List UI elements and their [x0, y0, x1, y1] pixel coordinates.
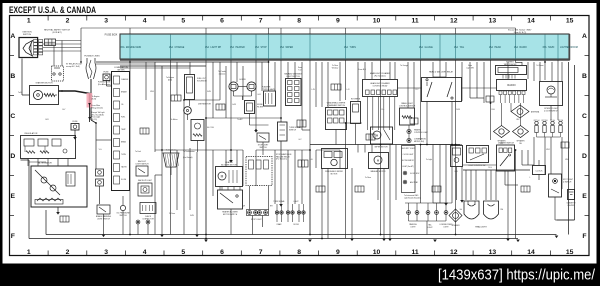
antenna speaker front [511, 105, 529, 118]
svg-text:GAUGE: GAUGE [425, 46, 434, 49]
svg-text:WIPER MOTOR: WIPER MOTOR [374, 147, 388, 149]
svg-text:INT WIPER: INT WIPER [351, 99, 361, 101]
svg-text:(B,B): (B,B) [168, 79, 172, 81]
svg-text:12: 12 [450, 18, 458, 25]
brake warning light switch [97, 205, 110, 214]
svg-text:15: 15 [566, 18, 574, 25]
svg-text:15A: 15A [419, 46, 424, 49]
svg-text:RR RH: RR RH [558, 120, 564, 122]
condenser wires [170, 150, 172, 153]
svg-text:E: E [11, 193, 16, 200]
svg-text:From B,B: From B,B [358, 69, 366, 71]
svg-text:M: M [221, 175, 224, 179]
highlighter mark pink [87, 93, 93, 108]
svg-text:LIGHTER: LIGHTER [568, 205, 576, 207]
meter feed wires [99, 186, 101, 204]
mid horizontal wires [96, 61, 269, 63]
svg-text:LIGHT SWITCH: LIGHT SWITCH [97, 218, 111, 220]
wires regulator-alternator [28, 159, 68, 167]
svg-text:E: E [582, 193, 587, 200]
stop lights [248, 211, 252, 215]
svg-text:REAR: REAR [277, 223, 282, 226]
back-up light switch [136, 166, 148, 176]
svg-text:12: 12 [450, 249, 458, 256]
svg-text:B-W: B-W [207, 91, 211, 93]
wire fuse to bus [74, 130, 76, 137]
photo black edge right [597, 0, 600, 286]
svg-text:W-L: W-L [516, 119, 519, 121]
svg-text:FUSE: FUSE [103, 72, 109, 74]
svg-text:LIGHT: LIGHT [294, 201, 299, 203]
svg-text:TURN: TURN [350, 47, 357, 49]
door speaker [449, 209, 462, 222]
svg-text:(FOR A/T): (FOR A/T) [52, 31, 61, 34]
svg-text:15: 15 [566, 249, 574, 256]
svg-text:SWITCH: SWITCH [289, 129, 297, 131]
parking tail license lamp row [405, 202, 448, 204]
ignition coil [191, 120, 204, 141]
svg-text:LIGHT SWITCH: LIGHT SWITCH [136, 163, 150, 165]
ignition switch connector terminals [34, 40, 43, 55]
svg-text:15A: 15A [454, 46, 459, 49]
svg-text:LIGHT SWITCH: LIGHT SWITCH [286, 76, 300, 78]
svg-text:DISTRIBUTOR: DISTRIBUTOR [198, 104, 211, 106]
option lamp column [402, 146, 416, 193]
svg-text:LIGHT RH: LIGHT RH [211, 47, 222, 49]
svg-text:OIL: OIL [121, 104, 124, 106]
svg-text:(For Diesel): (For Diesel) [183, 157, 193, 159]
headlight RH [484, 201, 499, 219]
column grid ticks bottom [48, 251, 550, 256]
wire stubs middle [268, 80, 270, 91]
turn signal unit [451, 146, 463, 167]
svg-text:(For Sweden): (For Sweden) [374, 74, 386, 77]
svg-text:RR LH: RR LH [550, 120, 556, 122]
svg-text:15A: 15A [120, 46, 125, 49]
svg-text:RADIO: RADIO [520, 46, 527, 49]
bottom horizontal bus wires [46, 234, 557, 236]
fuel cut solenoid [185, 75, 195, 100]
svg-text:13: 13 [489, 249, 497, 256]
fusible link wire down [90, 79, 92, 120]
svg-text:(For Alternator): (For Alternator) [98, 83, 111, 86]
svg-text:To A/C: To A/C [237, 118, 243, 121]
svg-text:ANTENNA: ANTENNA [531, 111, 540, 114]
extra connector blocks [171, 95, 181, 101]
svg-text:SWITCH: SWITCH [259, 147, 267, 149]
svg-text:ENGINE MAIN: ENGINE MAIN [126, 46, 142, 49]
svg-text:HAZD: HAZD [548, 46, 555, 49]
fuse box highlighted bar [120, 34, 569, 59]
row grid letters right [582, 33, 587, 240]
svg-text:To Door: To Door [169, 213, 176, 215]
watermark black bar [0, 264, 600, 286]
svg-text:SWITCH: SWITCH [23, 34, 32, 36]
speaker LH [494, 126, 510, 138]
svg-text:B: B [10, 73, 15, 80]
svg-text:3: 3 [104, 18, 108, 25]
svg-text:CONTROL SWITCH: CONTROL SWITCH [399, 105, 416, 107]
svg-text:METER: METER [118, 69, 126, 71]
svg-text:4: 4 [143, 249, 147, 256]
svg-text:TAIL: TAIL [460, 46, 465, 49]
svg-text:15A: 15A [542, 46, 547, 49]
column grid ticks top [48, 16, 550, 21]
svg-text:REGULATOR: REGULATOR [25, 132, 38, 135]
svg-text:(For Sweden): (For Sweden) [276, 159, 287, 161]
svg-text:F: F [11, 233, 15, 240]
svg-text:2: 2 [66, 249, 70, 256]
svg-text:A: A [10, 33, 15, 40]
svg-text:(B, 15): (B, 15) [92, 119, 98, 121]
svg-text:10: 10 [373, 249, 381, 256]
svg-text:MOTOR SWITCH: MOTOR SWITCH [223, 214, 238, 216]
svg-text:TURN: TURN [121, 154, 126, 156]
ST relay (for A/T) [52, 66, 64, 81]
svg-text:D: D [10, 153, 15, 160]
svg-text:FRT LH: FRT LH [534, 120, 540, 122]
condenser noise suppressor [163, 153, 179, 167]
fuse box bar shadow edges [120, 59, 570, 61]
wire from starter [22, 94, 30, 96]
svg-text:FUSIBLE LINKS: FUSIBLE LINKS [84, 56, 100, 58]
svg-text:RADIO: RADIO [507, 83, 515, 87]
row grid ticks left and right [10, 56, 590, 216]
column grid numbers top [27, 18, 574, 25]
svg-text:15A: 15A [230, 46, 235, 49]
svg-text:FUSE: FUSE [72, 121, 78, 123]
svg-text:B-W: B-W [190, 215, 194, 217]
spot light and switch [549, 174, 562, 197]
radio [497, 80, 527, 91]
svg-text:G-W: G-W [232, 104, 236, 106]
wire through highlight with arrows [89, 104, 91, 122]
intermittent wiper relay [351, 102, 361, 124]
svg-text:To Meter: To Meter [171, 118, 178, 121]
svg-text:EXCEPT U.S.A. & CANADA: EXCEPT U.S.A. & CANADA [9, 5, 96, 15]
svg-text:6: 6 [220, 18, 224, 25]
photo black edge top [0, 0, 600, 3]
svg-text:9: 9 [336, 18, 340, 25]
right area connecting wires [550, 106, 552, 121]
ground symbols at wire ends [160, 235, 164, 238]
svg-text:Turn: Turn [298, 69, 302, 71]
svg-text:BRAKE: BRAKE [121, 91, 128, 94]
check connector [140, 203, 156, 214]
oil pressure switch [120, 205, 125, 210]
svg-text:15A: 15A [205, 46, 210, 49]
row grid letters left [10, 33, 15, 240]
light control switch [467, 146, 489, 163]
ignition switch [19, 38, 38, 58]
svg-text:3: 3 [104, 249, 108, 256]
svg-text:METER (RH): METER (RH) [414, 141, 424, 143]
wires above fuse box [81, 28, 516, 62]
svg-text:& WASHER SWITCH: & WASHER SWITCH [327, 104, 346, 107]
svg-text:Relay (Diesel): Relay (Diesel) [92, 107, 104, 109]
svg-text:CHARGE: CHARGE [175, 46, 185, 49]
svg-text:TACHO: TACHO [121, 166, 127, 169]
bus arrows [204, 240, 208, 243]
svg-text:STOP: STOP [261, 47, 268, 49]
svg-text:R-L: R-L [382, 109, 385, 111]
headlight LH [464, 201, 479, 219]
svg-text:To Light: To Light [426, 158, 433, 161]
svg-text:15A: 15A [280, 46, 285, 49]
wire verticals upper band [146, 62, 562, 235]
svg-text:HEADLIGHT: HEADLIGHT [475, 226, 487, 229]
heater control light [407, 129, 411, 133]
turn signal switch [278, 122, 288, 141]
horn wires [238, 86, 247, 88]
svg-text:CLOCK: CLOCK [536, 171, 544, 173]
washer motor [369, 153, 389, 169]
blower wires [222, 187, 240, 191]
stop lamp bulb failure relay [246, 157, 272, 186]
fuse stack left of meter [96, 169, 104, 176]
svg-text:FRT RH: FRT RH [542, 120, 549, 122]
distributor [184, 107, 192, 115]
svg-text:15A: 15A [514, 46, 519, 49]
heater blower motor switch [218, 190, 243, 209]
svg-text:5: 5 [181, 249, 185, 256]
svg-text:9: 9 [336, 249, 340, 256]
svg-text:LIGHTER ROOM: LIGHTER ROOM [560, 47, 578, 49]
left feed wires [45, 210, 47, 235]
junction dots near starter [61, 90, 63, 92]
svg-text:HEATER: HEATER [236, 46, 245, 49]
svg-text:L-W: L-W [311, 89, 315, 91]
speaker wires [501, 103, 503, 126]
speaker RH [513, 126, 529, 138]
igniter and coil unit [30, 86, 59, 105]
svg-text:LIGHT: LIGHT [411, 226, 416, 228]
relay wires down [426, 102, 428, 145]
svg-text:F: F [582, 233, 586, 240]
fuse value labels [120, 46, 577, 49]
svg-text:7: 7 [259, 249, 263, 256]
svg-text:& SWITCH: & SWITCH [563, 181, 572, 183]
svg-text:11: 11 [412, 18, 419, 25]
svg-text:BLOWER MOTOR: BLOWER MOTOR [221, 164, 237, 166]
svg-text:SWITCH: SWITCH [119, 215, 127, 217]
svg-text:C: C [10, 113, 15, 120]
noise filter [245, 101, 255, 114]
svg-text:LIGHT: LIGHT [444, 226, 449, 228]
horizontal connector wires [29, 63, 534, 204]
svg-text:& DOOR SWITCH: & DOOR SWITCH [544, 110, 559, 112]
flasher turn signal and hazard [264, 91, 276, 106]
svg-text:STARTER MOTOR: STARTER MOTOR [35, 82, 53, 85]
svg-text:(Option): (Option) [219, 72, 226, 75]
svg-text:GLOVE BOX: GLOVE BOX [410, 173, 420, 175]
svg-text:6: 6 [220, 249, 224, 256]
svg-text:10: 10 [373, 18, 381, 25]
wires from ignition switch [43, 41, 81, 67]
svg-text:A: A [582, 33, 587, 40]
svg-text:ROOM: ROOM [293, 224, 299, 226]
fuse below [71, 124, 79, 131]
svg-text:DIMMER SWITCH: DIMMER SWITCH [498, 143, 514, 145]
svg-text:FUSE BOX: FUSE BOX [105, 34, 118, 37]
horn RH [247, 82, 256, 91]
svg-text:L: L [530, 177, 531, 179]
svg-text:4: 4 [143, 18, 147, 25]
cigarette lighter [568, 190, 575, 200]
svg-text:To Rear: To Rear [365, 177, 372, 179]
svg-text:7: 7 [259, 18, 263, 25]
svg-text:FUEL: FUEL [121, 117, 125, 119]
svg-text:5: 5 [181, 18, 185, 25]
fuse tube [103, 74, 110, 81]
svg-text:To Tachometer: To Tachometer [183, 150, 195, 153]
headlight wires [466, 170, 496, 200]
svg-text:B: B [582, 73, 587, 80]
column grid numbers bottom [27, 249, 574, 256]
svg-text:IG COIL: IG COIL [207, 127, 214, 129]
svg-text:13: 13 [489, 18, 497, 25]
stop light switch [257, 133, 269, 142]
svg-text:FILTER: FILTER [257, 106, 264, 108]
combination meter light RH [407, 138, 411, 142]
svg-text:[1439x637] https://upic.me/: [1439x637] https://upic.me/ [438, 267, 596, 284]
svg-text:To Room: To Room [536, 65, 544, 67]
svg-text:MOTOR: MOTOR [331, 173, 338, 175]
back-up light connector [138, 183, 152, 196]
svg-text:SECURITY LIGHT: SECURITY LIGHT [401, 148, 414, 150]
svg-text:C: C [582, 113, 587, 120]
wires column 3-4 verticals [154, 62, 156, 140]
right edge bus wires [568, 62, 570, 235]
interior room light [540, 82, 563, 106]
svg-text:SOLENOID: SOLENOID [197, 80, 207, 82]
door switches [535, 121, 538, 124]
bold feed wire [59, 91, 90, 104]
svg-text:CLOCK LIGHT: CLOCK LIGHT [403, 154, 414, 156]
svg-text:Light SW: Light SW [466, 66, 474, 69]
svg-text:To Gauge: To Gauge [400, 65, 408, 67]
clock [533, 166, 546, 175]
svg-text:Light Switch (Sweden): Light Switch (Sweden) [404, 196, 421, 199]
svg-text:R-W: R-W [456, 109, 460, 111]
svg-text:CONTROL LIGHT: CONTROL LIGHT [414, 132, 428, 134]
main vertical wires below fuse box [130, 60, 558, 235]
svg-text:8: 8 [297, 249, 301, 256]
svg-text:1: 1 [27, 18, 31, 25]
rear lamp group [275, 211, 278, 214]
svg-text:(TURN & HAZD): (TURN & HAZD) [262, 88, 276, 91]
wiper motor [371, 127, 393, 144]
wire verticals lower band [155, 118, 562, 239]
svg-text:14: 14 [527, 249, 535, 256]
svg-text:14: 14 [527, 18, 535, 25]
svg-text:15A: 15A [344, 46, 349, 49]
svg-text:15A: 15A [255, 46, 260, 49]
svg-text:To Fuel: To Fuel [135, 151, 141, 153]
svg-text:CONTROL RELAY: CONTROL RELAY [373, 84, 389, 87]
meter panel lamps [136, 220, 140, 224]
svg-text:CHARGE: CHARGE [121, 78, 129, 81]
svg-text:SPEAKER: SPEAKER [452, 224, 461, 227]
scattered tiny labels [45, 65, 569, 217]
svg-text:8: 8 [297, 18, 301, 25]
svg-text:Window: Window [332, 67, 339, 69]
neutral safety switch connector [45, 39, 56, 46]
horn LH [229, 82, 238, 91]
svg-text:LIGHT: LIGHT [428, 227, 433, 229]
svg-text:11: 11 [412, 249, 419, 256]
svg-text:ILLUM: ILLUM [121, 179, 127, 181]
svg-text:15A: 15A [169, 46, 174, 49]
svg-text:D: D [582, 153, 587, 160]
svg-text:except EC, S.A): except EC, S.A) [66, 65, 80, 68]
svg-text:(B, B): (B, B) [92, 98, 97, 100]
svg-text:HEAD: HEAD [495, 46, 502, 49]
svg-text:WIPER: WIPER [286, 47, 294, 49]
svg-text:1: 1 [27, 249, 31, 256]
alternator ground [57, 207, 59, 212]
svg-text:BEAM: BEAM [121, 141, 126, 144]
windshield wiper motor [322, 149, 348, 169]
alternator stator winding [37, 198, 61, 201]
svg-text:2: 2 [66, 18, 70, 25]
photo black edge left [0, 0, 3, 286]
wires through fuse box [130, 35, 558, 60]
svg-text:BACK-UP LIGHT: BACK-UP LIGHT [138, 179, 153, 182]
svg-text:15A: 15A [489, 46, 494, 49]
